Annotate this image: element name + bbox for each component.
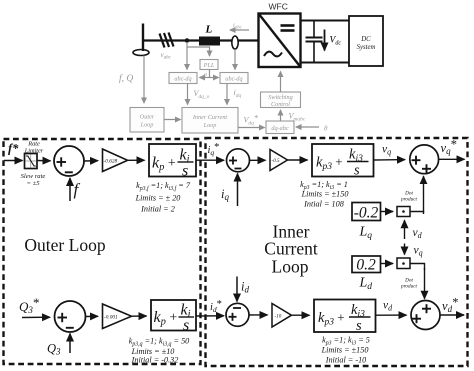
wire gain to PI2 — [132, 315, 147, 317]
svg-text:Limiter: Limiter — [24, 147, 44, 154]
Lq feedforward arrow up into S4 — [423, 176, 425, 212]
svg-text:θ: θ — [324, 125, 328, 133]
summing junction S4 — [410, 145, 439, 174]
svg-text:Outer: Outer — [140, 114, 155, 121]
wire rl to sum1 — [37, 160, 51, 162]
svg-text:0.2: 0.2 — [356, 257, 376, 274]
bus bar — [142, 24, 144, 52]
Inner Current Loop gray box — [182, 108, 238, 134]
svg-text:-0.001: -0.001 — [104, 315, 118, 321]
iq feedback arrow — [237, 174, 239, 207]
wire S2 to gain — [86, 315, 99, 317]
svg-text:Slew rate: Slew rate — [21, 173, 46, 180]
wire gain to PI3 — [288, 159, 308, 161]
wire gain to PI1 — [128, 159, 145, 161]
svg-text:WFC: WFC — [269, 2, 288, 12]
transducer ellipse — [133, 50, 149, 56]
svg-text:kp +: kp + — [154, 309, 178, 328]
wire dot2 right and down to S5 — [410, 264, 425, 271]
i_abc arrow — [230, 29, 249, 31]
summing junction S1 — [54, 146, 84, 176]
svg-text:Initial = -10: Initial = -10 — [325, 356, 367, 365]
PI controller box 4 — [314, 300, 376, 333]
svg-text:product: product — [400, 197, 418, 203]
svg-text:-0.628: -0.628 — [104, 159, 118, 165]
svg-text:-0.5: -0.5 — [272, 158, 281, 164]
iq* wire to inner loop — [196, 159, 224, 161]
svg-text:DC: DC — [360, 36, 371, 43]
rate limiter box — [25, 154, 38, 169]
Vdq* wire — [238, 127, 265, 129]
Vdq_o arrow — [187, 84, 189, 105]
id* wire to inner loop — [196, 315, 224, 317]
svg-text:f, Q: f, Q — [119, 73, 133, 84]
dq-abc box — [266, 121, 294, 134]
svg-text:System: System — [357, 44, 376, 51]
abc-dq box right — [220, 73, 248, 84]
PI controller box 3 — [312, 144, 374, 177]
svg-text:θ: θ — [204, 73, 207, 79]
svg-text:s: s — [182, 163, 188, 180]
f* input wire — [4, 160, 23, 162]
Ld gain box 0.2 — [352, 256, 381, 273]
CT to abc-dq R wire — [234, 49, 236, 70]
svg-text:Loop: Loop — [140, 122, 154, 129]
Switching Control box — [261, 92, 301, 108]
svg-text:Initial = 2: Initial = 2 — [140, 205, 175, 214]
gain -0.628 — [103, 149, 128, 172]
vd into dot1 arrow — [404, 220, 406, 239]
svg-text:kp +: kp + — [152, 155, 176, 174]
wire junction to abc-dq L — [186, 42, 188, 70]
svg-text:f*: f* — [8, 142, 19, 156]
Outer Loop gray box — [130, 108, 164, 133]
svg-text:s: s — [183, 317, 189, 334]
abc-dq box left — [169, 73, 197, 84]
theta input — [296, 126, 319, 128]
PI controller box 1 — [149, 144, 196, 177]
svg-text:product: product — [400, 284, 418, 290]
summing junction S6 — [226, 303, 249, 326]
svg-text:L: L — [205, 24, 213, 36]
vd* output arrow — [440, 314, 464, 316]
theta to abc-dq R — [210, 77, 219, 79]
wire dot1 to Lq arrow — [410, 212, 424, 215]
outer to inner arrow — [164, 119, 181, 121]
dc link bottom wire — [301, 62, 350, 64]
svg-text:Control: Control — [271, 101, 290, 108]
svg-text:Limits = ±150: Limits = ±150 — [301, 190, 349, 199]
svg-text:abc-dq: abc-dq — [174, 76, 191, 83]
DC System box — [349, 16, 383, 66]
svg-text:Limits = ±150: Limits = ±150 — [321, 346, 369, 355]
Vmabc arrow — [280, 110, 282, 121]
svg-text:Limits = ± 20: Limits = ± 20 — [135, 194, 181, 203]
svg-text:s: s — [354, 163, 360, 179]
three-phase marks — [160, 33, 174, 48]
wire — [143, 39, 258, 41]
arrow -0.2 to dot1 — [381, 211, 394, 213]
CT ellipse — [232, 36, 238, 49]
Q3* input wire — [22, 316, 50, 318]
gain -0.001 — [103, 304, 132, 329]
WFC box — [259, 14, 301, 68]
svg-text:PLL: PLL — [203, 62, 215, 69]
vq* output arrow — [439, 158, 465, 160]
junction dot — [185, 38, 190, 43]
svg-text:dq-abc: dq-abc — [271, 125, 288, 132]
wire junction to PLL — [188, 47, 210, 56]
dc symbol = — [281, 26, 295, 31]
gain -10 — [272, 304, 292, 328]
svg-text:Initial = -0.32: Initial = -0.32 — [131, 356, 179, 365]
svg-text:-10: -10 — [275, 314, 282, 320]
PLL box — [200, 60, 218, 70]
outer loop dashed box — [4, 139, 201, 364]
inductor L — [199, 37, 220, 46]
Q3 feedback arrow — [69, 334, 71, 354]
PLL theta node — [209, 70, 211, 78]
theta to abc-dq L — [200, 77, 210, 79]
PI controller box 2 — [151, 300, 196, 331]
Lq gain box -0.2 — [352, 203, 381, 221]
f feedback arrow — [69, 178, 71, 201]
svg-text:Loop: Loop — [272, 257, 309, 277]
ac symbol ~ — [264, 52, 282, 57]
i_dq arrow — [226, 84, 228, 105]
SC to WFC arrow — [280, 72, 282, 93]
svg-text:Intial = 108: Intial = 108 — [303, 200, 344, 209]
svg-text:= ±5: = ±5 — [26, 180, 40, 187]
wire S6 to gain — [249, 314, 268, 316]
wire gain to PI4 — [292, 314, 310, 316]
svg-text:-0.2: -0.2 — [354, 205, 379, 222]
svg-text:Current: Current — [264, 239, 318, 259]
summing junction S5 — [411, 301, 440, 330]
vq into dot2 arrow — [404, 244, 406, 255]
svg-text:s: s — [356, 318, 362, 334]
dc link top wire — [301, 20, 350, 22]
svg-text:Outer Loop: Outer Loop — [24, 235, 105, 255]
svg-text:abc-dq: abc-dq — [225, 76, 242, 83]
id feedforward arrow into S6 — [236, 277, 238, 302]
capacitor — [306, 21, 323, 63]
arrow 0.2 to dot2 — [381, 263, 394, 265]
inner loop dashed box — [206, 138, 468, 366]
rate limiter symbol — [30, 155, 32, 168]
dot product box 1 — [397, 207, 410, 217]
gain -0.5 — [270, 150, 288, 171]
svg-text:Inner Current: Inner Current — [192, 114, 228, 121]
wire PI3 to S4 — [374, 159, 406, 161]
svg-text:Switching: Switching — [268, 94, 292, 101]
wire PI4 to S5 — [376, 314, 407, 316]
summing junction S2 — [55, 301, 86, 332]
svg-text:Loop: Loop — [203, 122, 217, 129]
summing junction S3 — [227, 149, 250, 172]
dot product box 2 — [397, 258, 410, 269]
wire S3 to gain — [250, 159, 266, 161]
f,Q measurement line — [143, 56, 145, 104]
Vdc arrow — [324, 30, 326, 51]
wire S1 to gain — [84, 160, 98, 162]
